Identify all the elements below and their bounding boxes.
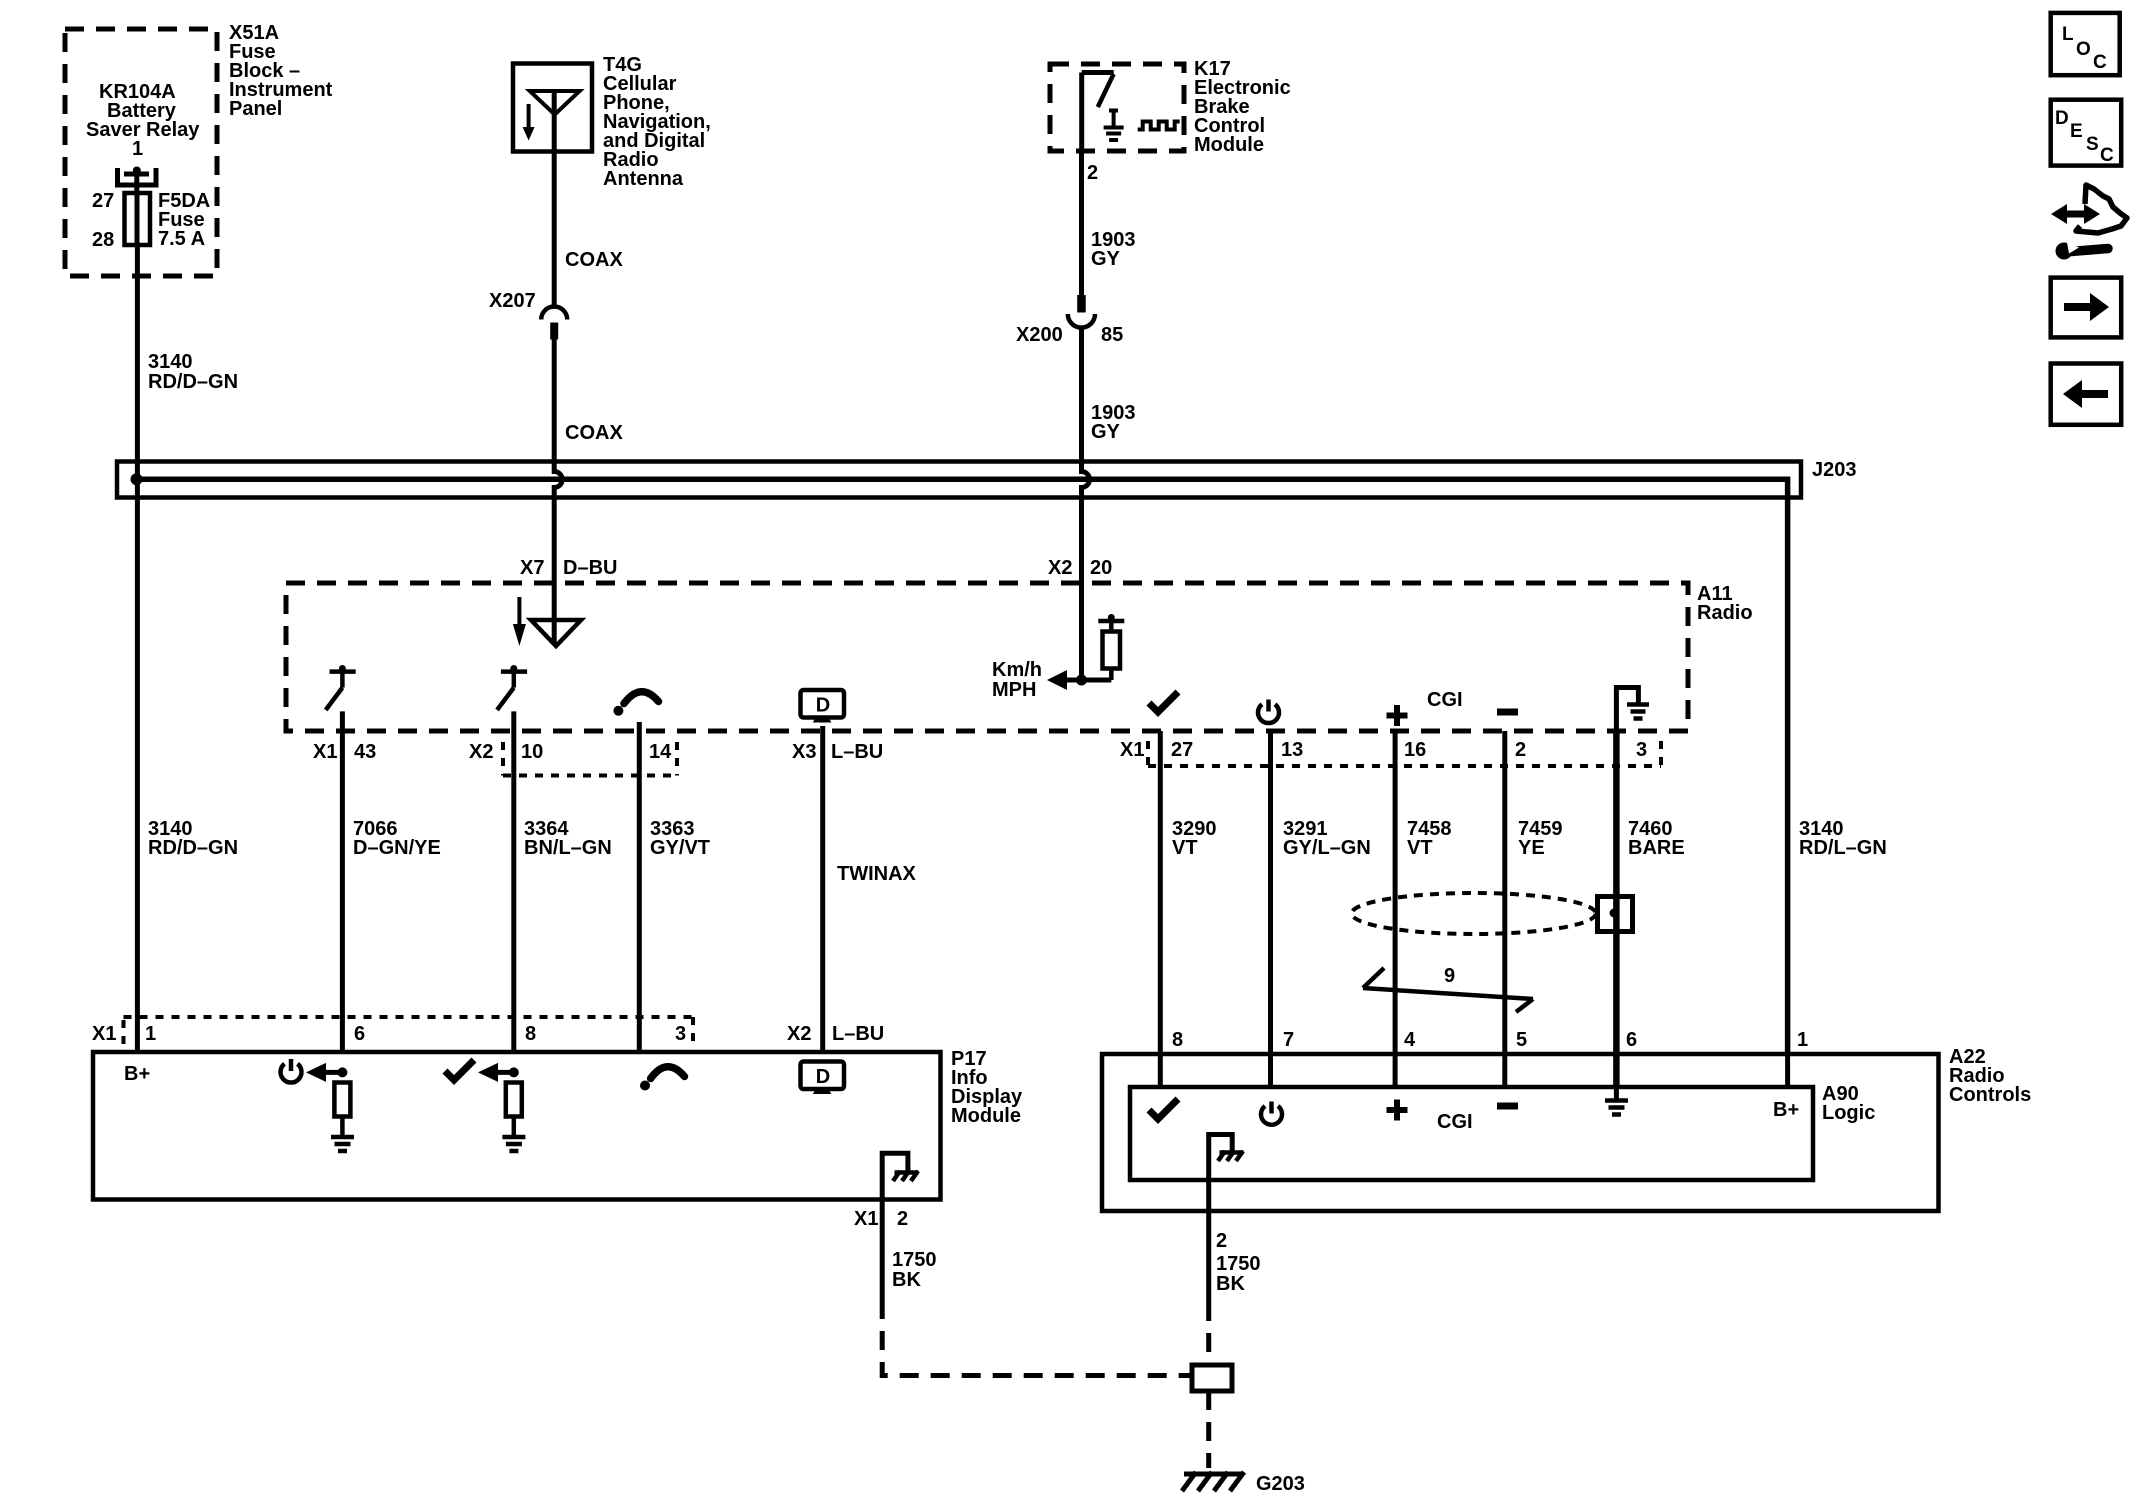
wire 3363 from phone to P17 pin 3 bbox=[637, 722, 642, 1052]
check icon in A11 bbox=[1149, 692, 1178, 712]
svg-text:43: 43 bbox=[354, 741, 376, 763]
pin row above P17 bbox=[92, 1023, 884, 1045]
minus sign in A11 bbox=[1497, 709, 1518, 716]
svg-text:7.5 A: 7.5 A bbox=[158, 228, 205, 250]
label 3140 RD/D-GN upper bbox=[148, 351, 238, 393]
svg-text:4: 4 bbox=[1404, 1029, 1416, 1051]
wire 1750 BK from A22 bbox=[1206, 1211, 1211, 1302]
svg-text:Panel: Panel bbox=[229, 98, 282, 120]
label X2 20 bbox=[1048, 557, 1112, 579]
display D icon in P17 bbox=[801, 1062, 845, 1095]
svg-text:Radio: Radio bbox=[1697, 602, 1753, 624]
svg-text:X2: X2 bbox=[1048, 557, 1072, 579]
wire labels for drops to P17 and A22 bbox=[148, 818, 1887, 859]
pin 2 below A22 bbox=[1216, 1230, 1261, 1295]
svg-text:2: 2 bbox=[1515, 739, 1526, 761]
svg-text:X1: X1 bbox=[854, 1208, 878, 1230]
label X7 D-BU bbox=[520, 557, 617, 579]
svg-text:RD/L–GN: RD/L–GN bbox=[1799, 837, 1887, 859]
check icon in P17 bbox=[445, 1060, 474, 1080]
fuse block X51A dashed box bbox=[65, 29, 217, 276]
minus sign in A90 bbox=[1497, 1103, 1518, 1110]
resistor to ground on pin 8 bbox=[502, 1083, 525, 1152]
label 1903 GY lower bbox=[1091, 402, 1136, 443]
chassis ground in P17 bbox=[882, 1153, 918, 1199]
label 1903 GY upper bbox=[1091, 229, 1136, 270]
svg-text:L–BU: L–BU bbox=[831, 741, 883, 763]
phone icon in A11 bbox=[613, 692, 658, 716]
icon crossover with wrench bbox=[2051, 185, 2127, 260]
svg-text:X2: X2 bbox=[469, 741, 493, 763]
svg-text:2: 2 bbox=[1216, 1230, 1227, 1252]
svg-text:1750: 1750 bbox=[1216, 1253, 1261, 1275]
svg-text:GY: GY bbox=[1091, 248, 1121, 270]
pin labels above A22 bbox=[1172, 1029, 1808, 1051]
power icon in P17 bbox=[281, 1059, 302, 1083]
pin stub wires into A90 bbox=[1158, 1054, 1163, 1087]
module K17 dashed box bbox=[1050, 64, 1184, 151]
wire splice to G203 bbox=[1206, 1391, 1211, 1468]
resistor to ground on pin 6 bbox=[331, 1083, 354, 1152]
chassis ground in A90 bbox=[1209, 1135, 1244, 1212]
svg-text:X3: X3 bbox=[792, 741, 816, 763]
hollow arrow at antenna feed bbox=[531, 620, 581, 646]
label X51A Fuse Block Instrument Panel bbox=[229, 22, 333, 120]
antenna symbol bbox=[530, 91, 580, 115]
logic A90 box bbox=[1130, 1087, 1813, 1180]
svg-text:D–GN/YE: D–GN/YE bbox=[353, 837, 441, 859]
splice pack J203 bus bbox=[117, 462, 1801, 498]
wire TWINAX from D icon to P17 X2 bbox=[820, 726, 825, 1052]
fuse F5DA symbol bbox=[125, 193, 151, 245]
connector pin box A11 pins 27 13 16 2 3 bbox=[1148, 741, 1661, 766]
arrow from pin 6 to power icon bbox=[318, 1070, 342, 1075]
power icon in A11 bbox=[1258, 700, 1279, 724]
twisted pair arrow 9 bbox=[1363, 988, 1533, 999]
wire 1903 GY X200 to A11 with hop over J203 bbox=[1082, 326, 1090, 584]
svg-text:9: 9 bbox=[1444, 965, 1455, 987]
svg-text:Logic: Logic bbox=[1822, 1102, 1875, 1124]
svg-text:GY: GY bbox=[1091, 421, 1121, 443]
wire 3364 from switch to P17 pin 8 bbox=[511, 711, 516, 1052]
connector pin box P17 bbox=[124, 1017, 694, 1046]
arrow from pin 8 to check icon bbox=[490, 1070, 514, 1075]
resistor at speed signal bbox=[1098, 614, 1124, 680]
antenna feed wire into A11 bbox=[552, 583, 557, 643]
svg-text:RD/D–GN: RD/D–GN bbox=[148, 371, 238, 393]
svg-text:27: 27 bbox=[92, 190, 114, 212]
svg-text:Km/h: Km/h bbox=[992, 659, 1042, 681]
svg-text:COAX: COAX bbox=[565, 249, 623, 271]
svg-text:3: 3 bbox=[1636, 739, 1647, 761]
svg-text:J203: J203 bbox=[1812, 459, 1857, 481]
display D icon in A11 bbox=[801, 690, 845, 723]
junction dot on J203 bbox=[131, 473, 143, 485]
phone icon in P17 bbox=[640, 1067, 685, 1091]
svg-text:10: 10 bbox=[521, 741, 543, 763]
radio A11 dashed box bbox=[286, 583, 1688, 731]
switch icon at A11 pin 10 bbox=[497, 665, 527, 710]
icon right arrow box bbox=[2051, 278, 2122, 338]
svg-text:BARE: BARE bbox=[1628, 837, 1685, 859]
label K17 Electronic Brake Control Module bbox=[1194, 58, 1291, 156]
svg-text:Antenna: Antenna bbox=[603, 168, 684, 190]
wire 7066 from switch to P17 pin 6 bbox=[340, 711, 345, 1052]
svg-text:X200: X200 bbox=[1016, 324, 1063, 346]
svg-text:VT: VT bbox=[1172, 837, 1198, 859]
label A90 Logic bbox=[1822, 1083, 1875, 1124]
svg-text:BN/L–GN: BN/L–GN bbox=[524, 837, 612, 859]
svg-text:2: 2 bbox=[1087, 162, 1098, 184]
svg-text:Module: Module bbox=[951, 1105, 1021, 1127]
svg-text:28: 28 bbox=[92, 229, 114, 251]
radio controls A22 box bbox=[1102, 1054, 1939, 1211]
svg-text:2: 2 bbox=[897, 1208, 908, 1230]
svg-text:1: 1 bbox=[1797, 1029, 1808, 1051]
svg-text:BK: BK bbox=[892, 1269, 921, 1291]
svg-text:CGI: CGI bbox=[1427, 689, 1463, 711]
wire 3290 from check to A22 pin 8 bbox=[1158, 731, 1163, 1054]
svg-text:16: 16 bbox=[1404, 739, 1426, 761]
connector X207 symbol bbox=[541, 307, 567, 320]
svg-text:X7: X7 bbox=[520, 557, 544, 579]
svg-text:1: 1 bbox=[132, 138, 143, 160]
plus sign in A11 bbox=[1387, 705, 1408, 726]
label A22 Radio Controls bbox=[1949, 1046, 2031, 1106]
svg-text:B+: B+ bbox=[124, 1063, 150, 1085]
svg-text:B+: B+ bbox=[1773, 1099, 1799, 1121]
svg-text:Controls: Controls bbox=[1949, 1084, 2031, 1106]
svg-text:X1: X1 bbox=[92, 1023, 116, 1045]
svg-text:20: 20 bbox=[1090, 557, 1112, 579]
svg-text:L–BU: L–BU bbox=[832, 1023, 884, 1045]
svg-text:RD/D–GN: RD/D–GN bbox=[148, 837, 238, 859]
pin X1 2 below P17 bbox=[854, 1208, 937, 1291]
svg-text:13: 13 bbox=[1281, 739, 1303, 761]
pin row labels under A11 left bbox=[313, 741, 883, 763]
svg-text:GY/L–GN: GY/L–GN bbox=[1283, 837, 1371, 859]
svg-text:5: 5 bbox=[1516, 1029, 1527, 1051]
wire 1750 BK from P17 bbox=[880, 1200, 885, 1301]
svg-text:3140: 3140 bbox=[148, 351, 193, 373]
ground symbol inside K17 bbox=[1104, 111, 1124, 141]
small arrow beside antenna feed bbox=[517, 597, 521, 624]
svg-text:COAX: COAX bbox=[565, 422, 623, 444]
svg-text:C: C bbox=[2100, 145, 2114, 166]
label KR104A Battery Saver Relay bbox=[86, 81, 200, 160]
svg-text:VT: VT bbox=[1407, 837, 1433, 859]
wire 3140 RD/D-GN from fuse to J203 and on to P17 bbox=[135, 245, 140, 1052]
label F5DA Fuse 7.5 A bbox=[158, 190, 210, 250]
svg-text:S: S bbox=[2086, 134, 2099, 155]
connector X200 symbol bbox=[1077, 295, 1086, 313]
svg-text:E: E bbox=[2070, 121, 2083, 142]
svg-text:D: D bbox=[816, 1066, 830, 1088]
svg-text:X1: X1 bbox=[1120, 739, 1144, 761]
svg-text:TWINAX: TWINAX bbox=[837, 863, 917, 885]
shield square on 7460 wire bbox=[1598, 897, 1633, 932]
label P17 Info Display Module bbox=[951, 1048, 1023, 1127]
label A11 Radio bbox=[1697, 583, 1753, 624]
speed signal wire X2 20 inside A11 bbox=[1079, 583, 1084, 680]
svg-text:7: 7 bbox=[1283, 1029, 1294, 1051]
J203 bus wire bbox=[136, 479, 1788, 1054]
icon LOC box bbox=[2051, 13, 2120, 75]
svg-text:6: 6 bbox=[354, 1023, 365, 1045]
svg-text:Module: Module bbox=[1194, 134, 1264, 156]
label T4G Cellular Phone Navigation and Digital Radio Antenna bbox=[603, 54, 711, 190]
ground G203 bbox=[1182, 1472, 1244, 1491]
antenna T4G box bbox=[513, 64, 592, 152]
shield ellipse around CGI wires bbox=[1352, 893, 1596, 934]
check icon in A90 bbox=[1149, 1099, 1178, 1119]
svg-text:BK: BK bbox=[1216, 1273, 1245, 1295]
icon left arrow box bbox=[2051, 364, 2122, 425]
power icon in A90 bbox=[1261, 1102, 1282, 1125]
svg-text:Saver Relay: Saver Relay bbox=[86, 119, 200, 141]
wire 3291 from power to A22 pin 7 bbox=[1268, 731, 1273, 1054]
splice bbox=[1192, 1365, 1232, 1391]
svg-text:D: D bbox=[2055, 108, 2069, 129]
svg-text:14: 14 bbox=[649, 741, 672, 763]
wire COAX antenna to X207 bbox=[552, 91, 557, 308]
wire 7460 BARE from ground to A22 pin 6 bbox=[1613, 731, 1620, 1054]
svg-text:X1: X1 bbox=[313, 741, 337, 763]
wire 1903 GY K17 to X200 bbox=[1079, 151, 1084, 295]
svg-text:O: O bbox=[2076, 39, 2091, 60]
ground symbol in A90 bbox=[1605, 1087, 1628, 1115]
svg-text:GY/VT: GY/VT bbox=[650, 837, 710, 859]
wire 7459 from minus to A22 pin 5 bbox=[1502, 731, 1507, 1054]
label Km/h MPH bbox=[992, 659, 1042, 701]
relay KR104A contact symbol bbox=[118, 167, 157, 194]
down arrow in antenna box bbox=[527, 104, 531, 128]
arrow to Km/h MPH bbox=[1058, 678, 1111, 683]
svg-text:3: 3 bbox=[675, 1023, 686, 1045]
switch icon at A11 pin 43 bbox=[326, 665, 356, 710]
svg-text:G203: G203 bbox=[1256, 1473, 1305, 1495]
svg-text:L: L bbox=[2062, 24, 2074, 45]
switch inside K17 bbox=[1082, 70, 1114, 75]
svg-text:85: 85 bbox=[1101, 324, 1123, 346]
svg-text:X2: X2 bbox=[787, 1023, 811, 1045]
svg-text:6: 6 bbox=[1626, 1029, 1637, 1051]
pin row labels under A11 right bbox=[1120, 739, 1647, 761]
svg-text:C: C bbox=[2093, 52, 2107, 73]
module P17 box bbox=[93, 1052, 941, 1200]
wire COAX X207 to A11 with hop over J203 bbox=[554, 340, 562, 584]
svg-text:27: 27 bbox=[1171, 739, 1193, 761]
icon DESC box bbox=[2051, 100, 2122, 166]
wire 7458 from plus to A22 pin 4 bbox=[1393, 731, 1398, 1054]
svg-text:D–BU: D–BU bbox=[563, 557, 617, 579]
svg-text:8: 8 bbox=[525, 1023, 536, 1045]
svg-text:1750: 1750 bbox=[892, 1249, 937, 1271]
svg-text:MPH: MPH bbox=[992, 679, 1036, 701]
svg-text:8: 8 bbox=[1172, 1029, 1183, 1051]
svg-text:D: D bbox=[816, 695, 830, 717]
svg-text:CGI: CGI bbox=[1437, 1111, 1473, 1133]
coil square wave inside K17 bbox=[1138, 122, 1180, 130]
svg-text:X207: X207 bbox=[489, 290, 536, 312]
ground symbol at A11 pin 3 bbox=[1616, 688, 1649, 732]
connector pin box A11 pins 10 14 bbox=[503, 742, 677, 776]
svg-text:1: 1 bbox=[145, 1023, 156, 1045]
svg-text:YE: YE bbox=[1518, 837, 1545, 859]
plus sign in A90 bbox=[1387, 1100, 1408, 1121]
